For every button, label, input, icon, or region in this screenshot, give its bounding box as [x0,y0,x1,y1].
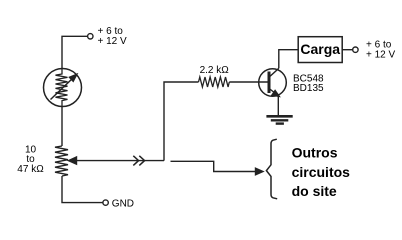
transistor Q1 collector stroke [270,68,279,76]
wire from +V terminal to LDR top [62,36,88,69]
svg-text:GND: GND [112,199,134,210]
connector chevrons >> on wiper line [133,156,144,166]
svg-text:circuitos: circuitos [292,164,351,180]
wire resistor to transistor base [229,81,267,83]
wire emitter down to ground [277,96,279,116]
label GND [112,199,134,210]
wire riser from wiper line up to base line [164,82,199,161]
svg-text:Outros: Outros [292,145,338,161]
svg-text:+ 12 V: + 12 V [366,50,396,61]
potentiometer wiper arrow (points left into zigzag) [69,157,165,164]
Carga load box [298,37,342,63]
transistor Q1 base bar [268,72,271,94]
transistor Q1 circle [259,69,287,97]
wire tap to other circuits with arrow [171,161,264,175]
labels BC548 BD135 [293,74,324,95]
svg-text:+ 12 V: + 12 V [98,36,128,47]
terminal GND (open circle) [103,200,108,205]
terminal +V left (open circle) [88,34,93,39]
label 2.2 kOhm [200,65,230,76]
label +6 to +12 V (right supply) [366,40,396,61]
potentiometer P1 zigzag body [55,146,68,176]
wire pot bottom to GND terminal [62,176,103,203]
svg-text:47 kΩ: 47 kΩ [17,164,44,175]
curly brace for other circuits [266,139,277,199]
wire collector up to Carga box [279,50,298,69]
label Carga [300,41,340,57]
LDR zigzag resistive element [56,69,68,107]
wire LDR bottom to potentiometer top [61,107,63,147]
value label 10 to 47 kOhm [17,144,44,175]
wire Carga box to +V terminal right [342,49,353,51]
terminal +V right (open circle) [353,47,358,52]
svg-text:BD135: BD135 [293,83,324,94]
LDR variable arrow [51,74,77,99]
LDR (photoresistor) circle [44,69,82,107]
label Outros circuitos do site [292,145,351,200]
ground symbol [266,116,292,123]
svg-text:2.2 kΩ: 2.2 kΩ [200,65,230,76]
svg-text:Carga: Carga [300,41,340,57]
transistor Q1 emitter stroke with arrow [270,89,280,96]
label +6 to +12 V (left supply) [98,26,128,47]
svg-text:do site: do site [292,183,337,199]
resistor R1 2.2k zigzag [199,77,230,87]
